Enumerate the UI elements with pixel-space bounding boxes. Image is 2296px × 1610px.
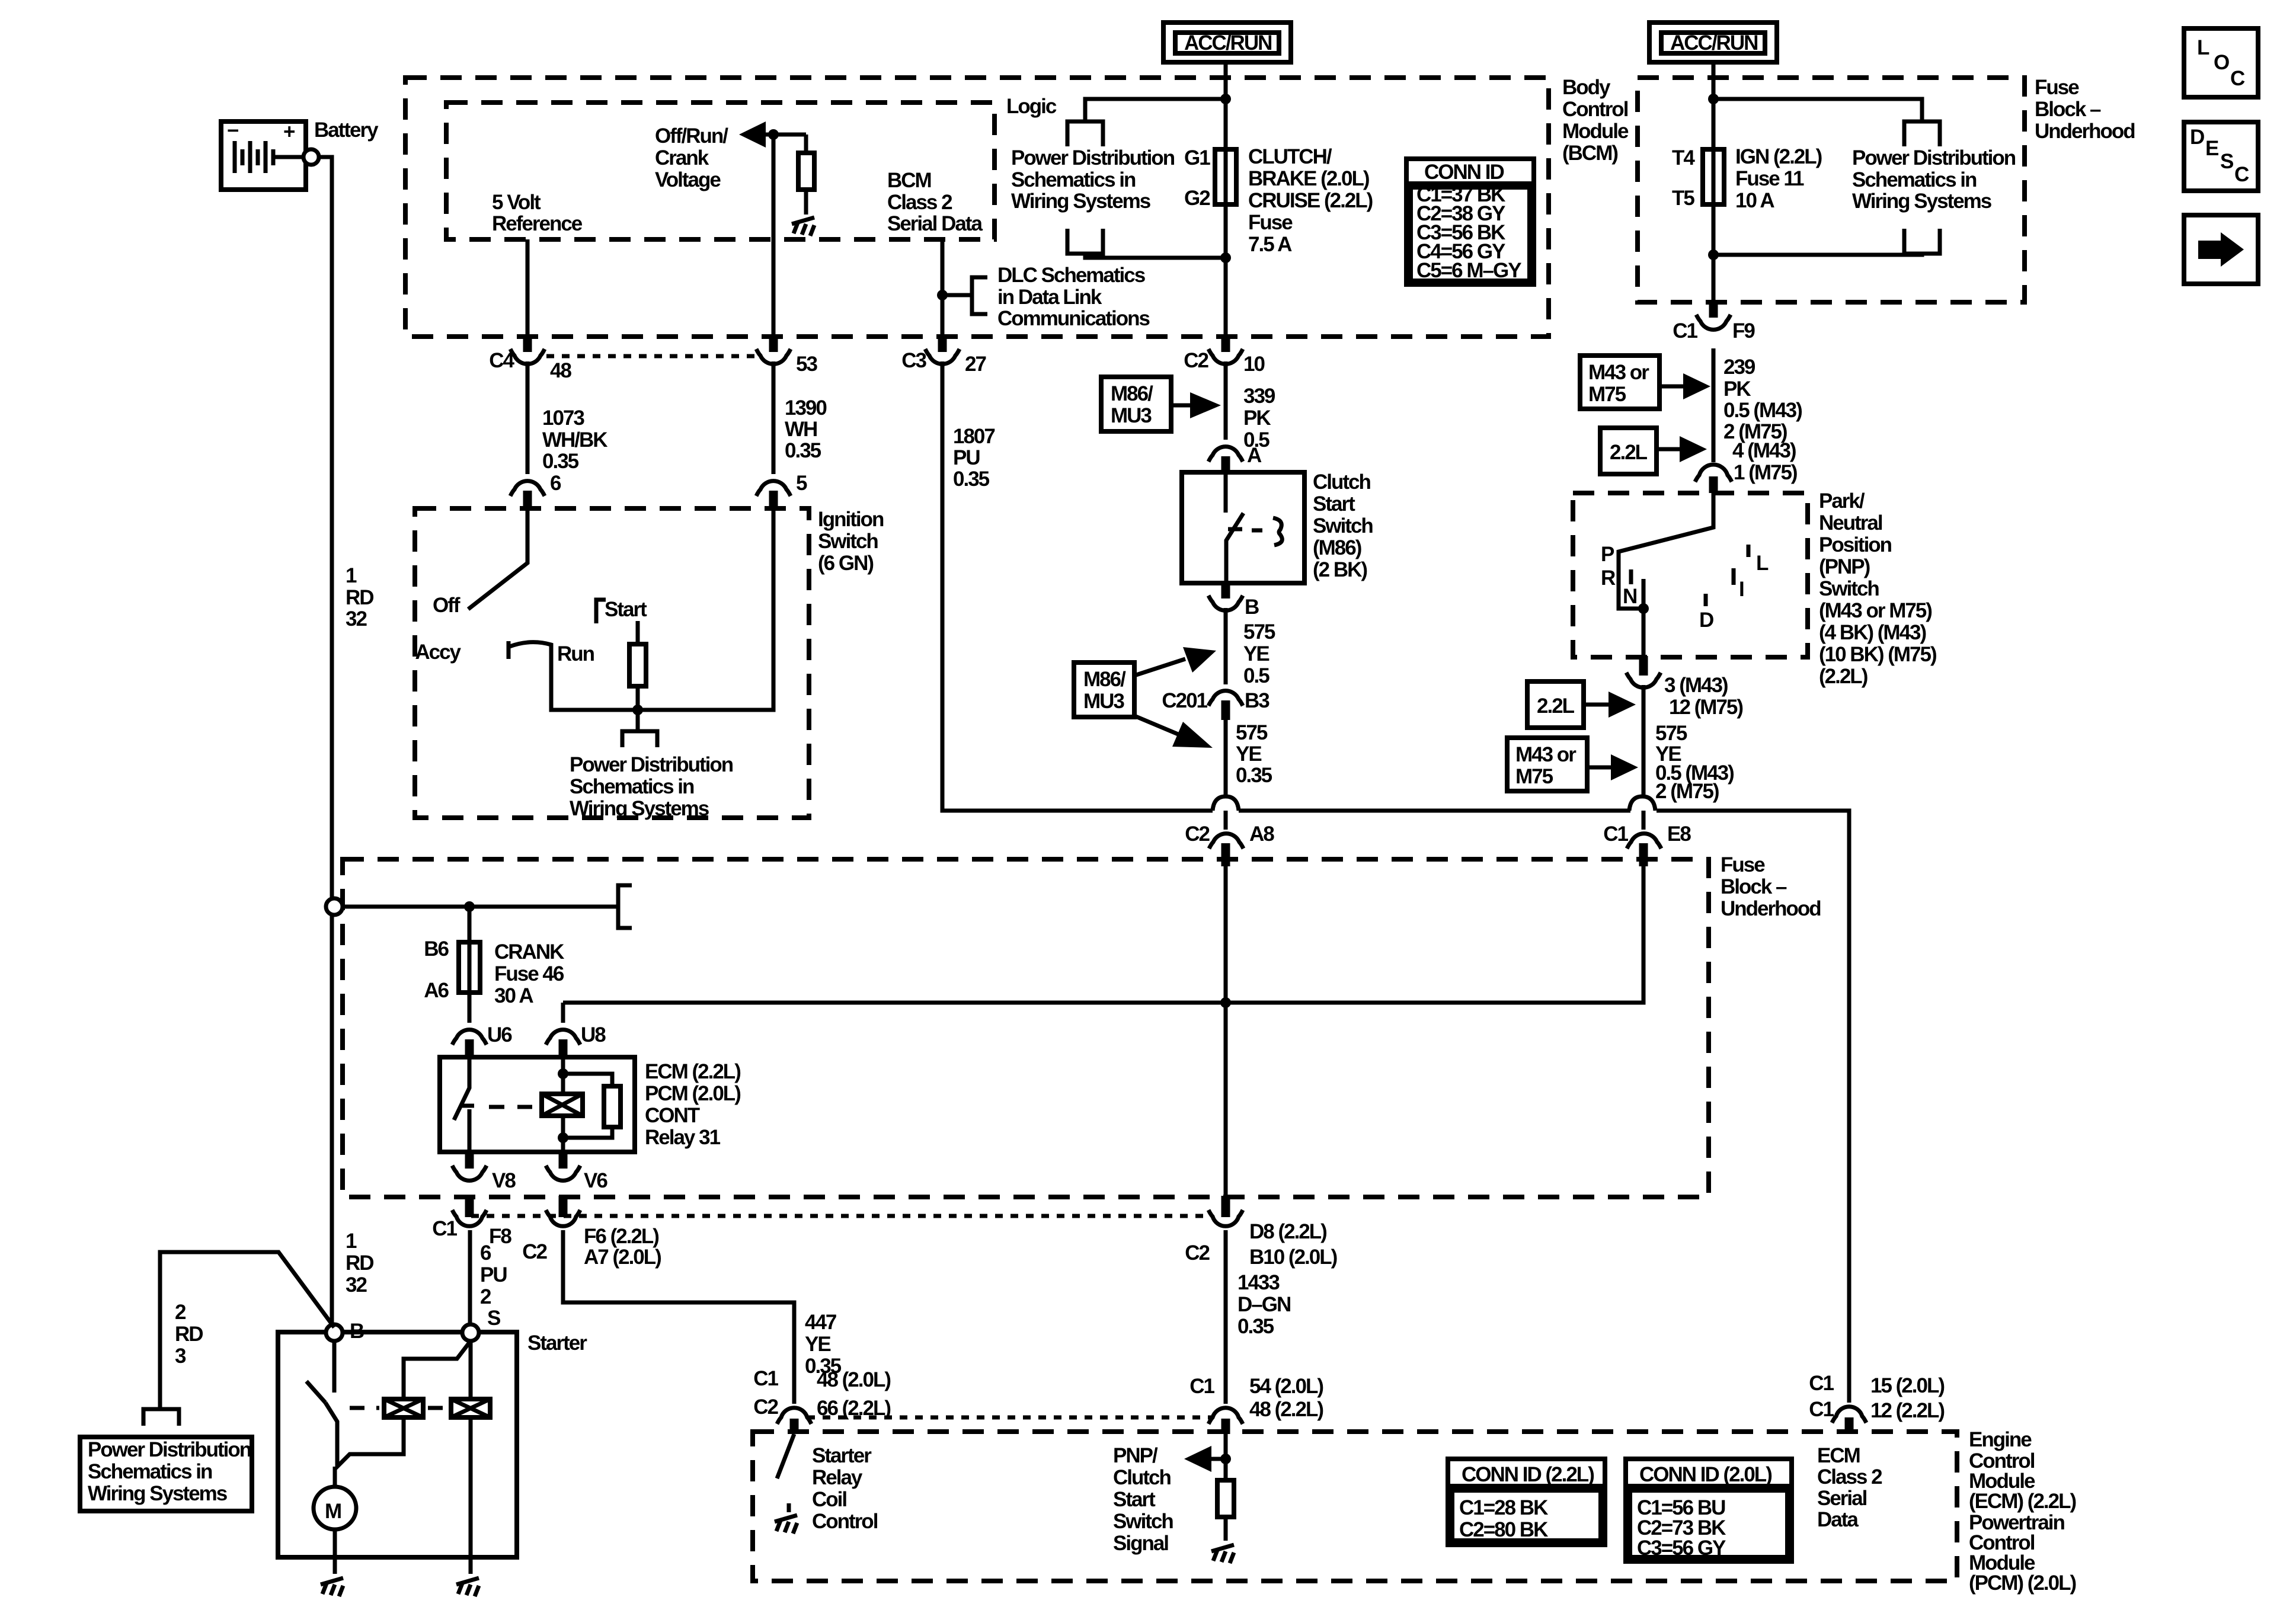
- node: logic feed junction: [1220, 94, 1231, 104]
- svg-text:0.5: 0.5: [1243, 664, 1269, 687]
- wire C2-10 down to clutch switch: [1224, 361, 1228, 440]
- svg-text:ACC/RUN: ACC/RUN: [1184, 31, 1271, 55]
- 2.2L callout box (lower): [1527, 681, 1636, 728]
- starter internals: B contact and blade: [332, 1341, 337, 1393]
- svg-text:RD: RD: [346, 1251, 373, 1275]
- svg-text:F8: F8: [489, 1225, 511, 1248]
- svg-text:CONN ID (2.0L): CONN ID (2.0L): [1639, 1463, 1771, 1486]
- off-page symbol: fuse block power dist top bracket: [1904, 121, 1940, 146]
- svg-text:YE: YE: [1236, 742, 1261, 766]
- svg-text:2: 2: [480, 1285, 491, 1308]
- svg-text:Schematics in: Schematics in: [570, 775, 694, 798]
- svg-text:DLC Schematics: DLC Schematics: [997, 264, 1146, 287]
- svg-text:27: 27: [965, 353, 986, 376]
- svg-text:CONN ID (2.2L): CONN ID (2.2L): [1462, 1463, 1594, 1486]
- svg-text:T4: T4: [1672, 146, 1695, 169]
- svg-text:1: 1: [346, 1230, 357, 1253]
- CONN ID (2.0L) table: [1626, 1459, 1792, 1561]
- svg-text:575: 575: [1243, 620, 1275, 644]
- svg-text:Reference: Reference: [492, 212, 583, 235]
- svg-text:12 (2.2L): 12 (2.2L): [1870, 1399, 1944, 1422]
- wire F8 down to starter S: [468, 1230, 472, 1324]
- wire class 2 serial data run: [942, 361, 1849, 1403]
- Off/Run/Crank arrow: [765, 133, 806, 137]
- svg-text:ACC/RUN: ACC/RUN: [1670, 31, 1757, 55]
- node: ignition resistor junction: [632, 705, 643, 715]
- svg-text:Crank: Crank: [655, 146, 709, 169]
- connector C2 pin 10: [1184, 335, 1265, 376]
- svg-text:30 A: 30 A: [494, 984, 533, 1007]
- svg-text:0.35: 0.35: [542, 450, 579, 473]
- svg-text:(2 BK): (2 BK): [1313, 558, 1367, 581]
- svg-text:CONN ID: CONN ID: [1424, 161, 1504, 184]
- wire off/run/crank down from junction: [772, 135, 776, 337]
- svg-text:BRAKE (2.0L): BRAKE (2.0L): [1248, 167, 1369, 190]
- connector 3 (M43) 12 (M75): [1626, 656, 1742, 719]
- clutch switch contacts: [1224, 472, 1228, 513]
- svg-text:7.5 A: 7.5 A: [1248, 233, 1292, 256]
- svg-text:M75: M75: [1588, 383, 1626, 406]
- connector C201 pin B3: [1162, 689, 1269, 720]
- svg-text:Communications: Communications: [997, 307, 1150, 330]
- svg-text:D: D: [1699, 609, 1713, 632]
- svg-text:5: 5: [796, 472, 807, 495]
- wire to power distribution bracket (right top): [1713, 99, 1922, 121]
- connector 1 (M75) at PNP: [1695, 465, 1732, 482]
- DESC legend box: [2184, 122, 2258, 191]
- svg-text:Clutch: Clutch: [1313, 470, 1371, 494]
- wire 53 to ignition connector 5: [772, 361, 776, 474]
- svg-text:Clutch: Clutch: [1113, 1466, 1171, 1489]
- svg-text:C: C: [2234, 163, 2249, 186]
- fuse CLUTCH/BRAKE/CRUISE 7.5A: [1184, 146, 1236, 210]
- svg-text:(PCM) (2.0L): (PCM) (2.0L): [1969, 1571, 2076, 1595]
- connector C1 pin F9: [1673, 301, 1755, 343]
- svg-text:Ignition: Ignition: [818, 508, 884, 531]
- svg-text:Fuse 46: Fuse 46: [494, 962, 564, 985]
- svg-text:15 (2.0L): 15 (2.0L): [1870, 1374, 1944, 1397]
- DLC junction node: [937, 290, 948, 300]
- svg-text:48: 48: [550, 359, 571, 382]
- svg-text:48 (2.0L): 48 (2.0L): [817, 1368, 890, 1391]
- svg-text:Logic: Logic: [1006, 95, 1057, 118]
- ground G-ECM: [1211, 1545, 1234, 1551]
- wire junction down to off-page bracket: [636, 710, 640, 731]
- dotted connector face line (lower ECM): [807, 1416, 1211, 1420]
- CONN ID table (BCM): [1406, 159, 1534, 284]
- wire PNP down to E8: [1642, 685, 1646, 830]
- svg-text:D8 (2.2L): D8 (2.2L): [1249, 1220, 1326, 1243]
- ignition switch dashed box: [415, 508, 809, 818]
- svg-text:M: M: [325, 1500, 341, 1523]
- svg-text:O: O: [2214, 51, 2229, 74]
- wire F6 to starter relay coil control: [563, 1230, 794, 1404]
- svg-text:(M43 or M75): (M43 or M75): [1819, 599, 1932, 622]
- svg-text:V6: V6: [584, 1169, 607, 1192]
- svg-text:1: 1: [346, 564, 357, 587]
- M43 or M75 callout box (lower): [1507, 738, 1638, 791]
- svg-text:4 (M43): 4 (M43): [1732, 439, 1796, 462]
- dotted connector face line (upper ECM): [471, 1214, 1212, 1218]
- svg-text:M43 or: M43 or: [1515, 743, 1576, 766]
- svg-text:Run: Run: [557, 642, 594, 665]
- svg-text:Relay 31: Relay 31: [645, 1126, 721, 1149]
- wire battery tap to bracket: [343, 905, 618, 909]
- svg-text:Data: Data: [1817, 1508, 1859, 1531]
- ground G-ORC: [792, 217, 814, 224]
- wire 5V ref down from logic box: [526, 239, 530, 337]
- svg-text:CLUTCH/: CLUTCH/: [1248, 145, 1332, 168]
- svg-text:Off: Off: [433, 594, 461, 617]
- node: ORC junction: [768, 129, 779, 140]
- svg-text:ECM (2.2L): ECM (2.2L): [645, 1060, 740, 1083]
- svg-text:C3: C3: [901, 349, 926, 372]
- connector A (clutch start switch): [1208, 444, 1262, 474]
- svg-text:U6: U6: [487, 1023, 512, 1046]
- fuse CRANK Fuse 46 30A: [424, 937, 480, 1002]
- svg-text:2.2L: 2.2L: [1537, 694, 1575, 718]
- svg-text:YE: YE: [1243, 642, 1269, 665]
- M86/MU3 callout box (lower) with arrows: [1074, 647, 1216, 748]
- starter motor M: [314, 1467, 356, 1557]
- ignition blade Accy-Run: [510, 642, 551, 659]
- connector V6: [546, 1151, 607, 1192]
- node: A8/U8 junction: [1220, 997, 1231, 1008]
- svg-text:5 Volt: 5 Volt: [492, 191, 541, 214]
- ground G-solenoid: [469, 1557, 473, 1574]
- resistor R-ECM (signal pulldown): [1224, 1434, 1228, 1480]
- svg-text:S: S: [2220, 150, 2233, 173]
- 2.2L callout box (upper): [1600, 428, 1707, 474]
- svg-text:C1: C1: [1809, 1398, 1834, 1421]
- svg-text:Schematics in: Schematics in: [88, 1460, 212, 1483]
- svg-text:C1: C1: [1189, 1375, 1214, 1398]
- wire ACC/RUN 2 down: [1712, 62, 1716, 149]
- fuse block underhood dashed box (main): [343, 859, 1709, 1197]
- node: fuse block feed junction: [1708, 94, 1719, 104]
- svg-text:C2=80 BK: C2=80 BK: [1459, 1518, 1548, 1541]
- svg-text:2.2L: 2.2L: [1610, 441, 1648, 464]
- svg-text:C: C: [2230, 67, 2245, 90]
- wire fuse to C2-10: [1224, 204, 1228, 337]
- svg-text:PK: PK: [1723, 377, 1751, 401]
- svg-text:12 (M75): 12 (M75): [1669, 696, 1742, 719]
- svg-text:in Data Link: in Data Link: [997, 286, 1102, 309]
- wire C201 down to A8: [1224, 720, 1228, 830]
- svg-text:Coil: Coil: [812, 1488, 846, 1511]
- svg-text:Fuse: Fuse: [1248, 211, 1293, 234]
- svg-text:0.35: 0.35: [1236, 764, 1272, 787]
- svg-text:C5=6 M–GY: C5=6 M–GY: [1416, 259, 1521, 282]
- ACC/RUN feed box 1: [1163, 23, 1291, 62]
- svg-text:2 (M75): 2 (M75): [1655, 780, 1719, 803]
- PNP/Clutch start switch signal arrow: [1209, 1457, 1226, 1461]
- svg-text:CRUISE (2.2L): CRUISE (2.2L): [1248, 189, 1373, 212]
- wire C4 to ignition connector 6: [526, 361, 530, 474]
- svg-text:C2: C2: [1185, 1241, 1210, 1265]
- svg-text:Wiring Systems: Wiring Systems: [1852, 190, 1992, 213]
- svg-text:M75: M75: [1515, 765, 1553, 788]
- battery positive terminal circle: [303, 149, 319, 165]
- battery B1: [221, 119, 306, 190]
- svg-text:U8: U8: [581, 1023, 606, 1046]
- svg-text:2: 2: [175, 1301, 186, 1324]
- svg-text:Power Distribution: Power Distribution: [88, 1438, 251, 1461]
- wire D8 column down: [1224, 1230, 1228, 1404]
- svg-text:B: B: [1245, 596, 1259, 619]
- svg-text:Power Distribution: Power Distribution: [1011, 146, 1175, 169]
- connector U8: [546, 1023, 606, 1058]
- svg-text:CONT: CONT: [645, 1104, 700, 1127]
- svg-text:D: D: [2190, 126, 2204, 149]
- svg-text:M86/: M86/: [1111, 382, 1153, 405]
- connector 5 (ignition switch): [756, 472, 807, 511]
- svg-text:3: 3: [175, 1345, 186, 1368]
- svg-text:B10 (2.0L): B10 (2.0L): [1249, 1246, 1337, 1269]
- connector C2 pin A8: [1185, 822, 1274, 866]
- svg-text:Switch: Switch: [1819, 577, 1879, 600]
- svg-text:Class 2: Class 2: [1817, 1465, 1882, 1489]
- svg-text:Module: Module: [1562, 120, 1629, 143]
- node: battery tap open circle: [326, 898, 343, 915]
- svg-text:Starter: Starter: [527, 1331, 587, 1355]
- svg-text:C1: C1: [1603, 822, 1628, 846]
- svg-text:C2: C2: [1185, 822, 1210, 846]
- svg-text:53: 53: [796, 353, 817, 376]
- connector V8: [452, 1151, 516, 1192]
- svg-text:B6: B6: [424, 937, 449, 961]
- svg-text:E8: E8: [1667, 822, 1691, 846]
- svg-text:Neutral: Neutral: [1819, 511, 1882, 534]
- wire battery to starter B: [319, 157, 332, 1325]
- svg-text:PCM (2.0L): PCM (2.0L): [645, 1082, 740, 1105]
- ground G-motor: [333, 1557, 337, 1574]
- svg-text:YE: YE: [805, 1333, 830, 1356]
- off-page symbol: battery power dist bracket: [143, 1409, 179, 1426]
- svg-text:32: 32: [346, 1273, 367, 1297]
- wire to DLC bracket: [942, 293, 972, 297]
- fuse IGN (2.2L) Fuse 11 10A: [1672, 146, 1724, 210]
- ground G-coil-control: [787, 1503, 791, 1512]
- svg-text:1807: 1807: [953, 425, 994, 448]
- connector U6: [452, 1023, 512, 1058]
- node: below fuse junction: [1220, 252, 1231, 263]
- wire BCM serial data down: [941, 239, 945, 337]
- svg-text:WH: WH: [785, 418, 817, 441]
- connector C2 pin D8/B10: [1185, 1196, 1336, 1269]
- svg-text:Starter: Starter: [812, 1444, 872, 1467]
- svg-text:32: 32: [346, 607, 367, 630]
- svg-text:C1: C1: [1809, 1372, 1834, 1395]
- svg-text:RD: RD: [346, 586, 373, 609]
- wire IGN fuse to C1-F9: [1712, 204, 1716, 302]
- svg-text:PNP/: PNP/: [1113, 1444, 1158, 1467]
- arrow legend box: [2184, 215, 2258, 284]
- connector C1 pins 54/48: [1189, 1375, 1323, 1434]
- svg-text:PU: PU: [480, 1263, 507, 1286]
- svg-text:Voltage: Voltage: [655, 168, 721, 191]
- starter box: [278, 1332, 517, 1557]
- svg-text:−: −: [227, 119, 238, 142]
- relay linkage dashes: [489, 1105, 532, 1109]
- starter solenoid windings: [384, 1399, 490, 1417]
- connector C1 pin F8: [432, 1196, 511, 1248]
- svg-text:Fuse: Fuse: [1721, 853, 1765, 876]
- svg-text:RD: RD: [175, 1323, 203, 1346]
- svg-text:Start: Start: [1113, 1488, 1156, 1511]
- svg-text:M43 or: M43 or: [1588, 361, 1649, 384]
- svg-text:(ECM) (2.2L): (ECM) (2.2L): [1969, 1490, 2076, 1513]
- wire bottom bracket to fuse wire: [1085, 254, 1226, 258]
- starter S terminal circle: [462, 1324, 479, 1341]
- svg-text:339: 339: [1243, 385, 1275, 408]
- svg-text:Park/: Park/: [1819, 489, 1865, 513]
- svg-text:C1: C1: [1673, 319, 1697, 343]
- svg-text:L: L: [1756, 552, 1769, 575]
- svg-text:E: E: [2205, 137, 2218, 160]
- connector C1/C2 pins 48/66: [753, 1367, 890, 1434]
- connector B (clutch start switch): [1208, 582, 1259, 619]
- svg-text:+: +: [283, 120, 295, 143]
- svg-text:A8: A8: [1249, 822, 1274, 846]
- svg-text:IGN (2.2L): IGN (2.2L): [1735, 145, 1822, 168]
- svg-text:54 (2.0L): 54 (2.0L): [1249, 1375, 1323, 1398]
- svg-text:6: 6: [480, 1241, 491, 1265]
- svg-text:Block –: Block –: [1721, 875, 1787, 898]
- M43 or M75 callout box (upper): [1580, 356, 1710, 409]
- svg-text:C1=28 BK: C1=28 BK: [1459, 1496, 1548, 1519]
- svg-text:0.35: 0.35: [1237, 1315, 1274, 1338]
- svg-text:Switch: Switch: [1113, 1510, 1173, 1533]
- wire A8 column through fuse block: [1224, 866, 1228, 1210]
- svg-text:(BCM): (BCM): [1562, 142, 1617, 165]
- connector 53: [756, 335, 817, 376]
- wire crank fuse to U6: [468, 993, 472, 1023]
- off-page symbol: fuse block power dist bottom bracket: [1904, 229, 1940, 254]
- svg-text:Power Distribution: Power Distribution: [570, 753, 733, 776]
- svg-text:1433: 1433: [1237, 1271, 1280, 1294]
- svg-text:Switch: Switch: [818, 530, 878, 553]
- svg-text:C1: C1: [753, 1367, 778, 1390]
- ECM/PCM dashed box: [753, 1432, 1957, 1581]
- svg-text:Accy: Accy: [415, 641, 461, 664]
- wire junction down to crank fuse: [468, 907, 472, 942]
- resistor R-ign (ignition start): [636, 621, 640, 644]
- svg-text:Position: Position: [1819, 533, 1892, 556]
- svg-text:Serial Data: Serial Data: [887, 212, 983, 235]
- svg-text:C2: C2: [1184, 349, 1208, 372]
- svg-text:B3: B3: [1245, 689, 1269, 712]
- svg-text:Start: Start: [605, 598, 647, 621]
- svg-text:Class 2: Class 2: [887, 191, 952, 214]
- svg-text:A: A: [1247, 444, 1262, 467]
- svg-text:V8: V8: [492, 1169, 516, 1192]
- connector C1 pins 15/12 (ECM serial): [1809, 1372, 1944, 1434]
- wire 2 RD to starter B: [160, 1252, 334, 1410]
- svg-text:N: N: [1623, 585, 1636, 608]
- svg-text:D–GN: D–GN: [1237, 1293, 1290, 1316]
- connector C3 pin 27: [901, 335, 986, 376]
- svg-text:C201: C201: [1162, 689, 1207, 712]
- dotted connector face C4-C2: [546, 354, 757, 359]
- wire hop at E8 column: [1629, 796, 1655, 811]
- svg-text:CRANK: CRANK: [494, 940, 564, 964]
- svg-text:C3=56 GY: C3=56 GY: [1637, 1537, 1726, 1560]
- connector C2 pin F6: [522, 1196, 661, 1269]
- svg-text:Off/Run/: Off/Run/: [655, 124, 728, 148]
- svg-text:R: R: [1601, 566, 1616, 590]
- wire F9 down to PNP: [1712, 348, 1716, 462]
- svg-text:WH/BK: WH/BK: [542, 428, 607, 452]
- starter linkage dashes: [350, 1406, 446, 1410]
- LOC legend box: [2184, 28, 2258, 97]
- svg-text:1390: 1390: [785, 396, 827, 420]
- svg-text:Start: Start: [1313, 492, 1355, 516]
- ECM/PCM CONT relay box: [440, 1057, 635, 1152]
- svg-text:Control: Control: [812, 1510, 878, 1533]
- PNP switch internals: [1619, 493, 1713, 609]
- svg-text:ECM: ECM: [1817, 1444, 1860, 1467]
- svg-text:(M86): (M86): [1313, 536, 1361, 559]
- svg-text:(2.2L): (2.2L): [1819, 665, 1868, 688]
- svg-text:(6 GN): (6 GN): [818, 552, 873, 575]
- svg-text:Engine: Engine: [1969, 1428, 2032, 1451]
- ACC/RUN feed box 2: [1649, 23, 1777, 62]
- park/neutral position switch dashed box: [1573, 493, 1808, 657]
- svg-text:B: B: [350, 1320, 364, 1343]
- svg-text:Underhood: Underhood: [1721, 897, 1821, 920]
- svg-text:575: 575: [1655, 722, 1687, 745]
- svg-text:BCM: BCM: [887, 169, 931, 192]
- connector C4 pin 48: [489, 335, 571, 382]
- svg-text:I: I: [1739, 578, 1744, 601]
- svg-text:T5: T5: [1672, 187, 1694, 210]
- svg-text:0.5 (M43): 0.5 (M43): [1723, 399, 1802, 422]
- svg-text:1 (M75): 1 (M75): [1734, 461, 1797, 484]
- svg-text:Block –: Block –: [2035, 98, 2101, 121]
- svg-text:Control: Control: [1562, 98, 1628, 121]
- svg-text:PK: PK: [1243, 406, 1271, 430]
- wire U8 drop: [561, 1003, 565, 1023]
- resistor R-ORC (BCM off/run/crank pulldown): [804, 135, 808, 153]
- svg-text:C2: C2: [522, 1240, 547, 1263]
- off-page symbol: power distribution top bracket: [1067, 121, 1103, 146]
- svg-text:Serial: Serial: [1817, 1487, 1867, 1510]
- svg-text:0.35: 0.35: [953, 468, 990, 491]
- svg-text:Schematics in: Schematics in: [1852, 168, 1977, 191]
- BCM logic inner dashed box: [446, 103, 994, 239]
- svg-text:3 (M43): 3 (M43): [1664, 674, 1728, 697]
- ignition switch: feed wire and Off blade: [468, 511, 527, 609]
- svg-text:M86/: M86/: [1083, 668, 1126, 691]
- starter relay coil control blade: [777, 1434, 794, 1478]
- wire Run to bottom rail: [551, 511, 773, 710]
- svg-text:S: S: [487, 1307, 500, 1330]
- svg-text:447: 447: [805, 1311, 836, 1334]
- svg-text:P: P: [1601, 543, 1614, 566]
- starter S wiring: [404, 1341, 471, 1399]
- wire bottom bracket to fuse wire (right): [1713, 254, 1922, 255]
- svg-text:Schematics in: Schematics in: [1011, 168, 1136, 191]
- svg-text:(10 BK) (M75): (10 BK) (M75): [1819, 643, 1936, 666]
- svg-text:10: 10: [1243, 353, 1265, 376]
- svg-text:0.35: 0.35: [785, 439, 821, 462]
- svg-text:Fuse: Fuse: [2035, 76, 2079, 99]
- svg-text:Fuse 11: Fuse 11: [1735, 167, 1804, 190]
- Accy contact: [507, 641, 511, 659]
- svg-text:10 A: 10 A: [1735, 189, 1774, 212]
- svg-text:575: 575: [1236, 721, 1268, 744]
